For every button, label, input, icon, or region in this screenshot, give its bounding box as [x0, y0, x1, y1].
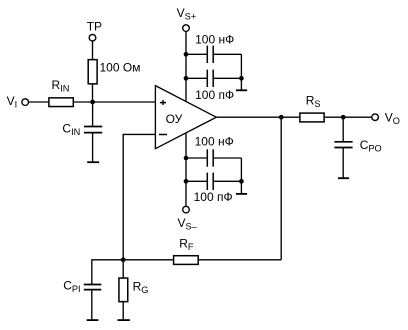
svg-text:RF: RF	[179, 237, 194, 253]
wire C1 right	[213, 53, 241, 55]
wire to C2 left	[186, 77, 207, 79]
ground CPO	[338, 177, 349, 179]
wire TP to R1	[92, 42, 94, 60]
wire C4 to ground	[240, 181, 242, 194]
wire CPO to ground	[342, 148, 344, 179]
ground CPI	[87, 319, 99, 321]
svg-text:100 нФ: 100 нФ	[195, 32, 234, 46]
ground VS+ group	[236, 89, 247, 91]
wire feedback vertical right	[280, 117, 282, 260]
svg-text:CPO: CPO	[360, 138, 382, 154]
svg-text:VO: VO	[385, 110, 400, 126]
svg-text:CPI: CPI	[63, 279, 80, 295]
resistor R1 100 Ohm	[88, 60, 97, 84]
wire right rail top	[240, 54, 242, 78]
svg-text:VS+: VS+	[177, 6, 197, 22]
junction VS- C4	[184, 179, 189, 184]
wire VS- rail	[185, 133, 187, 206]
svg-text:RG: RG	[133, 280, 149, 296]
wire RG to ground	[122, 302, 124, 320]
resistor RS	[300, 113, 324, 122]
junction VS+ C1	[184, 52, 189, 57]
terminal VO	[372, 114, 379, 121]
wire VS+ rail	[185, 32, 187, 102]
wire to C3 left	[186, 157, 207, 159]
resistor RG	[119, 278, 128, 302]
wire R1 to input node	[92, 84, 94, 102]
ground CIN	[87, 161, 99, 163]
svg-text:RIN: RIN	[52, 78, 70, 94]
svg-text:CIN: CIN	[62, 122, 80, 138]
capacitor C4 100pF	[207, 173, 213, 190]
junction VS- C3	[184, 156, 189, 161]
capacitor CIN	[84, 127, 102, 133]
svg-text:TP: TP	[87, 20, 102, 34]
wire input node to CIN	[92, 102, 94, 127]
wire op-amp inverting input	[123, 134, 155, 259]
svg-text:RS: RS	[306, 94, 321, 110]
svg-text:100 нФ: 100 нФ	[195, 135, 234, 149]
svg-text:ОУ: ОУ	[166, 112, 183, 126]
capacitor C2 100pF	[207, 70, 213, 87]
svg-text:100 пФ: 100 пФ	[195, 88, 234, 102]
ground VS- group	[236, 193, 247, 195]
wire to CPO	[342, 117, 344, 142]
wire VI to RIN	[29, 101, 49, 103]
junction C4 right	[239, 179, 244, 184]
junction VS+ C2	[184, 76, 189, 81]
terminal VS+	[183, 25, 190, 32]
wire to C4 left	[186, 180, 207, 182]
junction C2 right	[239, 76, 244, 81]
op-amp U1	[155, 86, 216, 149]
label plus input	[160, 100, 166, 105]
resistor RIN	[49, 98, 73, 107]
wire RS to VO	[325, 116, 372, 118]
capacitor CPI	[84, 285, 102, 290]
wire RF to G node	[123, 259, 173, 261]
wire CIN to ground	[92, 133, 94, 163]
capacitor CPO	[334, 142, 352, 148]
wire op-amp output	[216, 116, 299, 118]
terminal VS-	[183, 206, 190, 213]
junction feedback node	[279, 115, 284, 120]
svg-text:VS–: VS–	[178, 216, 198, 232]
svg-text:VI: VI	[7, 94, 18, 110]
capacitor C3 100nF	[207, 149, 213, 166]
wire G node to RG	[122, 260, 124, 278]
wire C2 to ground	[240, 78, 242, 90]
label minus input	[159, 134, 167, 136]
wire CPI to ground	[91, 290, 93, 321]
wire feedback bottom	[199, 259, 282, 261]
svg-text:100 пФ: 100 пФ	[194, 190, 233, 204]
junction G node	[121, 257, 126, 262]
terminal TP	[89, 34, 96, 41]
wire G node to CPI	[92, 260, 123, 285]
resistor RF	[174, 256, 199, 265]
junction CPO node	[341, 115, 346, 120]
junction input node	[90, 100, 95, 105]
terminal VI	[22, 99, 29, 106]
wire C4 right	[213, 180, 241, 182]
wire to C1 left	[186, 53, 207, 55]
svg-text:100 Ом: 100 Ом	[100, 61, 141, 75]
wire right rail bottom	[240, 158, 242, 181]
wire RIN to op-amp noninverting input	[74, 101, 156, 103]
capacitor C1 100nF	[207, 46, 213, 63]
wire C3 right	[213, 157, 241, 159]
wire C2 right	[213, 77, 241, 79]
ground RG	[118, 319, 130, 321]
